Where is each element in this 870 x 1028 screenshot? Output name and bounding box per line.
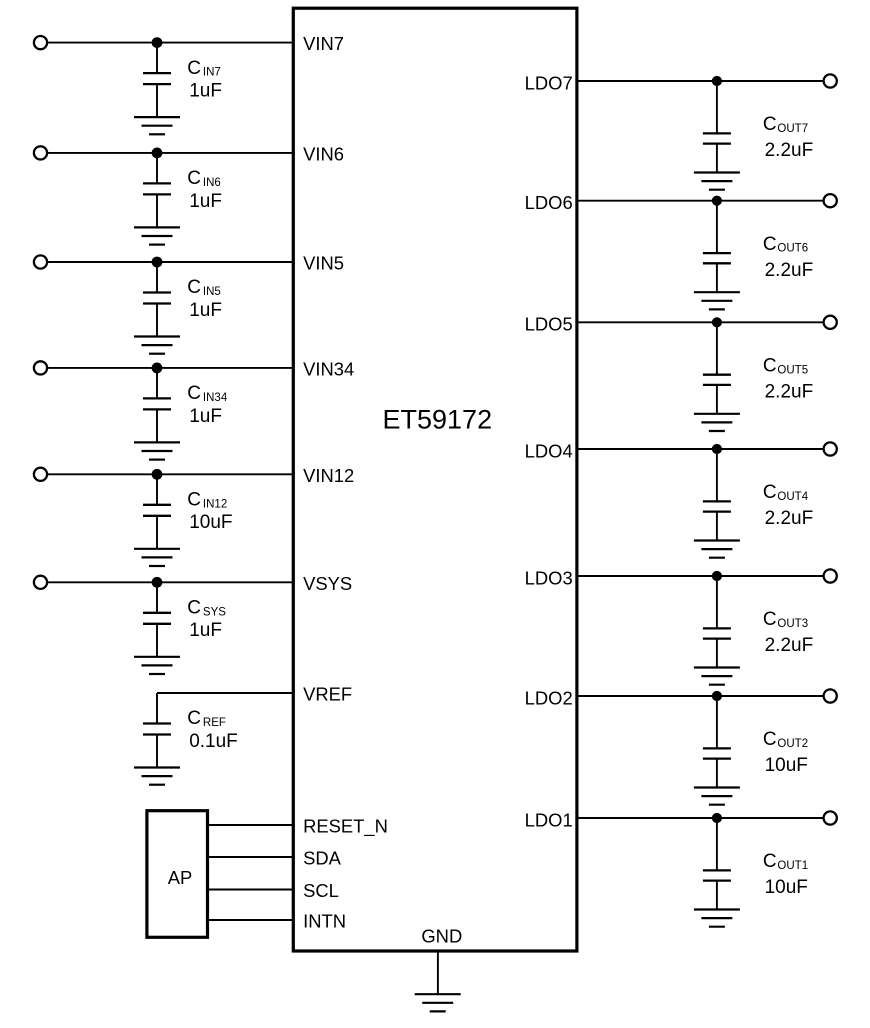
svg-text:VIN5: VIN5 <box>303 253 344 274</box>
wire LDO1 <box>577 817 824 819</box>
node LDO2 output terminal <box>824 689 837 702</box>
svg-text:AP: AP <box>168 867 193 888</box>
svg-text:LDO6: LDO6 <box>525 192 573 213</box>
svg-text:2.2uF: 2.2uF <box>765 260 814 281</box>
wire LDO4 <box>577 448 824 450</box>
node LDO1 output terminal <box>824 811 837 824</box>
ground (CIN6) <box>134 227 180 244</box>
capacitor COUT3 <box>703 576 731 668</box>
svg-text:SCL: SCL <box>303 880 339 901</box>
capacitor COUT7 <box>703 81 731 173</box>
junction VIN12 <box>152 469 163 480</box>
wire RESET_N <box>208 824 294 826</box>
svg-text:VSYS: VSYS <box>303 573 352 594</box>
svg-text:1uF: 1uF <box>189 300 222 321</box>
svg-text:LDO1: LDO1 <box>525 809 573 830</box>
svg-text:10uF: 10uF <box>765 877 808 898</box>
junction LDO4 <box>712 444 722 454</box>
AP block <box>147 811 208 938</box>
svg-text:10uF: 10uF <box>189 512 232 533</box>
junction VIN6 <box>152 148 163 159</box>
node VIN6 input terminal <box>34 146 47 159</box>
ground (GND) <box>415 994 461 1011</box>
svg-text:1uF: 1uF <box>189 191 222 212</box>
wire VREF <box>157 692 293 694</box>
ground (COUT4) <box>694 541 740 558</box>
svg-text:LDO4: LDO4 <box>525 440 573 461</box>
svg-text:VIN7: VIN7 <box>303 33 344 54</box>
svg-text:2.2uF: 2.2uF <box>765 635 814 656</box>
wire SDA <box>208 856 294 858</box>
capacitor COUT1 <box>703 818 731 910</box>
node LDO5 output terminal <box>824 316 837 329</box>
svg-text:VREF: VREF <box>303 684 352 705</box>
node LDO7 output terminal <box>824 74 837 87</box>
ground (CIN12) <box>134 549 180 566</box>
junction LDO3 <box>712 571 722 581</box>
svg-text:10uF: 10uF <box>765 755 808 776</box>
svg-text:LDO7: LDO7 <box>525 72 573 93</box>
svg-text:LDO2: LDO2 <box>525 687 573 708</box>
capacitor CIN5 <box>143 262 171 337</box>
junction VSYS <box>152 577 163 588</box>
svg-text:GND: GND <box>421 926 462 947</box>
node VIN12 input terminal <box>34 468 47 481</box>
junction VIN7 <box>152 37 163 48</box>
node VSYS input terminal <box>34 576 47 589</box>
svg-text:2.2uF: 2.2uF <box>765 508 814 529</box>
wire INTN <box>208 919 294 921</box>
junction VIN5 <box>152 257 163 268</box>
capacitor COUT4 <box>703 449 731 541</box>
wire GND <box>437 951 439 994</box>
svg-text:1uF: 1uF <box>189 406 222 427</box>
svg-text:VIN6: VIN6 <box>303 144 344 165</box>
ground (CIN5) <box>134 337 180 354</box>
ground (CREF) <box>134 768 180 785</box>
svg-text:SDA: SDA <box>303 848 342 869</box>
node VIN5 input terminal <box>34 255 47 268</box>
svg-text:VIN34: VIN34 <box>303 359 354 380</box>
junction VIN34 <box>152 363 163 374</box>
ground (COUT5) <box>694 414 740 431</box>
node LDO4 output terminal <box>824 442 837 455</box>
capacitor CIN12 <box>143 474 171 549</box>
svg-text:2.2uF: 2.2uF <box>765 140 814 161</box>
wire LDO2 <box>577 695 824 697</box>
ground (COUT6) <box>694 292 740 309</box>
capacitor COUT5 <box>703 322 731 414</box>
ground (COUT3) <box>694 668 740 685</box>
svg-text:LDO3: LDO3 <box>525 567 573 588</box>
junction LDO6 <box>712 196 722 206</box>
svg-text:LDO5: LDO5 <box>525 314 573 335</box>
capacitor COUT2 <box>703 696 731 788</box>
svg-text:1uF: 1uF <box>189 620 222 641</box>
IC U1 ET59172 body <box>293 8 577 951</box>
ground (COUT2) <box>694 788 740 805</box>
junction LDO1 <box>712 813 722 823</box>
wire VIN6 <box>47 152 293 154</box>
wire LDO5 <box>577 321 824 323</box>
svg-text:0.1uF: 0.1uF <box>189 731 238 752</box>
svg-text:ET59172: ET59172 <box>383 404 493 434</box>
ground (COUT7) <box>694 173 740 190</box>
ground (CIN7) <box>134 117 180 134</box>
capacitor CREF <box>143 693 171 768</box>
node VIN34 input terminal <box>34 361 47 374</box>
capacitor CSYS <box>143 582 171 657</box>
wire LDO6 <box>577 200 824 202</box>
wire VIN34 <box>47 367 293 369</box>
capacitor CIN34 <box>143 368 171 443</box>
wire VIN7 <box>47 42 293 44</box>
svg-text:VIN12: VIN12 <box>303 465 354 486</box>
svg-text:2.2uF: 2.2uF <box>765 382 814 403</box>
wire VSYS <box>47 581 293 583</box>
node LDO3 output terminal <box>824 569 837 582</box>
node LDO6 output terminal <box>824 194 837 207</box>
ground (CSYS) <box>134 657 180 674</box>
svg-text:INTN: INTN <box>303 911 346 932</box>
svg-text:1uF: 1uF <box>189 81 222 102</box>
wire VIN5 <box>47 261 293 263</box>
capacitor CIN7 <box>143 43 171 118</box>
wire LDO7 <box>577 80 824 82</box>
junction LDO7 <box>712 76 722 86</box>
wire SCL <box>208 889 294 891</box>
capacitor CIN6 <box>143 153 171 228</box>
capacitor COUT6 <box>703 201 731 293</box>
ground (COUT1) <box>694 910 740 927</box>
wire LDO3 <box>577 575 824 577</box>
junction LDO2 <box>712 691 722 701</box>
svg-text:RESET_N: RESET_N <box>303 816 388 838</box>
junction LDO5 <box>712 317 722 327</box>
wire VIN12 <box>47 473 293 475</box>
ground (CIN34) <box>134 442 180 459</box>
node VIN7 input terminal <box>34 36 47 49</box>
